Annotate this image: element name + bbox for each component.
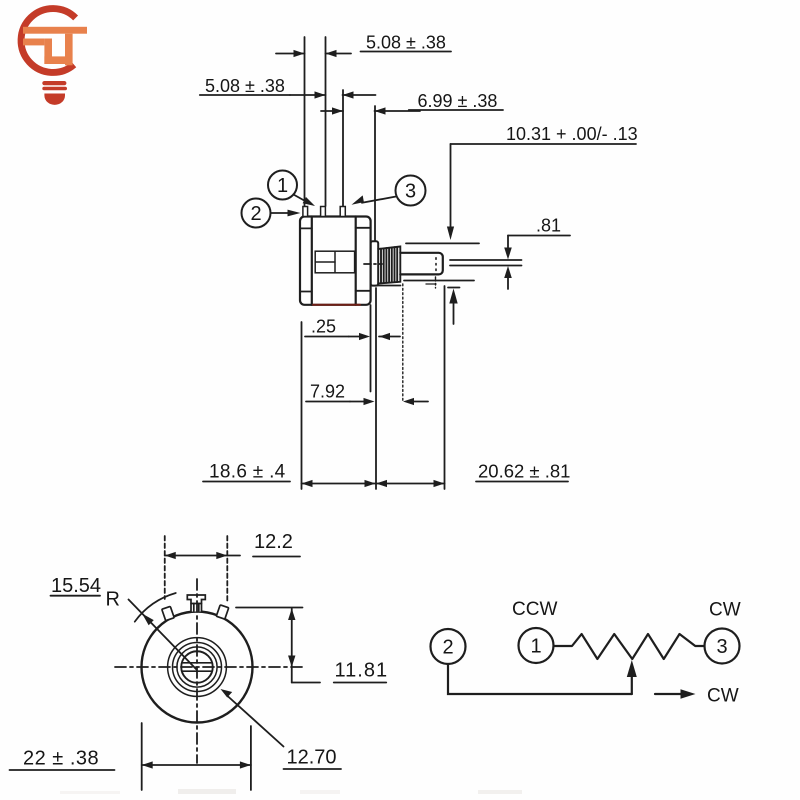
crosshair vertical <box>196 579 198 763</box>
svg-text:CW: CW <box>709 600 741 621</box>
keying lug <box>187 595 205 612</box>
svg-text:7.92: 7.92 <box>310 382 345 402</box>
small up arrow at shaft flat <box>448 288 460 325</box>
potentiometer body side view <box>300 217 371 305</box>
terminal circle 2 <box>242 199 301 228</box>
svg-text:18.6 ± .4: 18.6 ± .4 <box>209 462 286 483</box>
extension line pin3 <box>342 90 344 206</box>
bottom extension line body left <box>301 322 303 489</box>
resistor element <box>554 634 705 659</box>
logo ring C <box>21 9 76 73</box>
centerline dash at bushing <box>364 263 382 265</box>
dashed line below shaft end <box>435 277 437 288</box>
threads end dotted extension <box>402 284 404 402</box>
CW direction arrow <box>655 689 696 699</box>
wire terminal 2 to wiper <box>448 664 632 694</box>
dimension 12.70 leader <box>221 689 342 769</box>
logo base stripe 2 <box>42 87 67 91</box>
dimension .81 <box>450 216 570 290</box>
svg-text:12.70: 12.70 <box>287 747 337 769</box>
dimension 12.2 <box>165 531 300 602</box>
extension line pin1 <box>304 37 306 206</box>
right tab <box>216 605 228 619</box>
svg-text:11.81: 11.81 <box>335 660 389 682</box>
shaft <box>400 253 443 275</box>
dimension 22 <box>10 723 251 790</box>
terminal circle 1 <box>268 171 315 207</box>
extension line pin2 <box>325 37 327 206</box>
logo base stripe 1 <box>42 81 66 85</box>
svg-text:15.54: 15.54 <box>51 575 101 597</box>
dimension 5.08 top row <box>276 33 451 58</box>
dimension 5.08 left row <box>200 76 376 99</box>
terminal circle 3 <box>352 176 426 206</box>
front view inner circles <box>168 638 227 697</box>
dimension 20.62 <box>376 461 570 488</box>
svg-text:5.08 ± .38: 5.08 ± .38 <box>366 33 446 53</box>
front view outer circle <box>142 612 253 723</box>
screwdriver slot <box>182 663 212 671</box>
logo L foot <box>44 56 67 64</box>
crosshair horizontal <box>115 666 305 668</box>
svg-text:CW: CW <box>707 686 739 707</box>
svg-text:6.99 ± .38: 6.99 ± .38 <box>418 91 498 111</box>
logo T crossbar <box>23 27 87 34</box>
pin 1 <box>303 207 308 217</box>
svg-text:5.08 ± .38: 5.08 ± .38 <box>205 76 285 96</box>
threads <box>378 247 400 284</box>
svg-text:.81: .81 <box>536 216 561 236</box>
schematic terminal 2 <box>431 629 466 664</box>
logo T stem <box>65 34 73 66</box>
shaft flat dotted marks <box>435 258 437 271</box>
dimension 6.99 row <box>321 91 503 115</box>
faint scan remnant <box>60 789 522 794</box>
schematic terminal 3 <box>705 629 740 664</box>
bushing top extension line <box>406 242 479 244</box>
dimension 10.31 leader <box>447 124 638 240</box>
svg-text:2: 2 <box>442 637 453 659</box>
dimension 11.81 <box>236 608 388 683</box>
wiper arrow <box>627 660 637 694</box>
bushing end extension long <box>375 288 377 489</box>
svg-text:R: R <box>106 589 120 611</box>
body right edge extension <box>370 305 372 392</box>
pin 2 <box>321 207 326 217</box>
vertical extension line right (shaft end) <box>444 286 446 489</box>
dimension .25 <box>305 317 400 341</box>
bushing neck <box>371 241 379 285</box>
shaft bottom extension line <box>404 280 474 282</box>
reddish scan tint on body bottom edge <box>313 304 360 306</box>
short line under threads <box>376 285 401 287</box>
svg-text:22 ± .38: 22 ± .38 <box>23 748 99 770</box>
logo L vertical <box>44 39 52 65</box>
short flat tick <box>426 283 436 285</box>
svg-text:.25: .25 <box>311 317 336 337</box>
dimension 15.54 R <box>51 575 197 670</box>
dimension 18.6 <box>203 462 376 488</box>
svg-text:3: 3 <box>716 636 727 658</box>
svg-text:CCW: CCW <box>512 599 557 620</box>
svg-text:3: 3 <box>405 181 416 203</box>
svg-text:1: 1 <box>277 175 288 197</box>
left tab <box>162 606 174 620</box>
svg-text:10.31 + .00/- .13: 10.31 + .00/- .13 <box>506 124 638 144</box>
extension line bushing start <box>374 106 376 241</box>
svg-text:2: 2 <box>250 203 261 225</box>
body inner label rect <box>315 251 354 273</box>
svg-text:20.62 ± .81: 20.62 ± .81 <box>478 461 570 482</box>
logo base dome <box>44 94 65 105</box>
svg-text:12.2: 12.2 <box>254 531 293 553</box>
schematic terminal 1 <box>519 628 554 663</box>
body cap lines <box>300 228 371 292</box>
logo sub-bar <box>23 39 44 46</box>
pin 3 <box>340 207 345 217</box>
dimension 7.92 <box>306 382 428 406</box>
svg-text:1: 1 <box>530 636 541 658</box>
